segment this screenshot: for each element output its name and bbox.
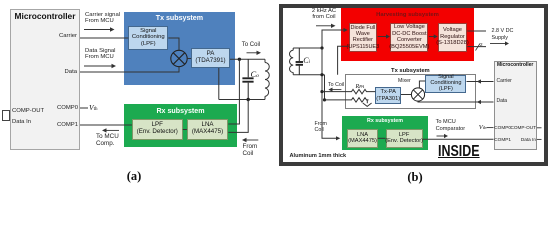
wire coil top to LNA input1 bbox=[228, 59, 239, 124]
pin COMP1 (MCU2) bbox=[494, 137, 511, 142]
LPF (Env. Detector) box (Rx b) bbox=[386, 129, 423, 148]
arrow boost to regulator bbox=[429, 34, 438, 38]
wire PA output node bbox=[230, 58, 265, 60]
svg-text:2: 2 bbox=[480, 42, 483, 47]
signal conditioning LPF box (Tx b) bbox=[425, 75, 466, 93]
wire tank bottom to LNA input2 bbox=[228, 100, 248, 133]
annotation: 2.8 V DC Supply bbox=[492, 28, 514, 40]
low voltage DC-DC boost converter box bbox=[390, 23, 428, 52]
diode full wave rectifier box bbox=[349, 23, 378, 52]
stub COMP-OUT to wall bbox=[537, 127, 542, 129]
wire mixer to PA bbox=[187, 58, 191, 60]
annotation: 2 kHz AC from Coil bbox=[302, 8, 346, 21]
LNA (MAX4475) box (Rx b) bbox=[347, 129, 377, 148]
voltage regulator box bbox=[438, 23, 468, 52]
mixer label (panel b) bbox=[398, 79, 411, 85]
junction node tank bottom (b) bbox=[320, 73, 323, 76]
pin Carrier (MCU1) bbox=[0, 33, 77, 40]
Rx subsystem box (panel b) bbox=[342, 116, 429, 150]
label INSIDE bbox=[438, 144, 480, 160]
capacitor Ci bbox=[296, 48, 303, 75]
annotation: From Coil (panel b) bbox=[315, 121, 327, 133]
wire PA ground drop bbox=[218, 68, 220, 100]
annotation: To MCU Comparator (panel b) bbox=[436, 119, 466, 132]
aluminum enclosure frame (panel b) bbox=[279, 4, 548, 167]
caption (b) bbox=[401, 170, 429, 184]
pin COMP-OUT (MCU2) bbox=[490, 125, 536, 130]
annotation: From Coil (panel a) bbox=[243, 143, 258, 157]
annotation arrow From Coil (a) bbox=[242, 138, 258, 142]
annotation arrow To Coil (b) bbox=[328, 88, 341, 92]
stub Vth to COMP0 (b) bbox=[487, 127, 494, 129]
connector box on MCU1 left edge bbox=[2, 110, 10, 121]
wire tank bottom (a) bbox=[219, 99, 265, 101]
wire rectifier return to tank bottom bbox=[338, 46, 349, 74]
LNA (MAX4475) box (Rx a) bbox=[187, 119, 228, 139]
node label Vth (panel a) bbox=[89, 104, 97, 113]
wire LNA2 to LPF2rx bbox=[378, 137, 386, 139]
junction node return feed (b) bbox=[323, 98, 326, 101]
Rx subsystem box (panel a) bbox=[124, 104, 237, 147]
Harvesting subsystem box bbox=[341, 8, 474, 61]
annotation arrow data-signal (a) bbox=[84, 64, 116, 68]
pin Data In (MCU2) bbox=[490, 137, 536, 142]
pin COMP-OUT (MCU1) bbox=[12, 108, 44, 115]
pin Carrier (MCU2) bbox=[497, 79, 512, 85]
PA (TDA7391) box bbox=[191, 48, 230, 69]
microcontroller MCU2 (panel b) bbox=[494, 61, 537, 151]
label Aluminum 1mm thick bbox=[290, 153, 347, 159]
resistor RPA wire to Tx-PA bbox=[322, 89, 375, 93]
wire mixer to signal conditioning (b) bbox=[419, 81, 425, 88]
resistor R2 wire with open arrow bbox=[325, 98, 372, 107]
wire regulator output 2 with bus slash 2 bbox=[467, 42, 486, 51]
wire tank top (b) bbox=[293, 47, 322, 49]
Tx-PA (TPA301) box bbox=[375, 87, 401, 104]
wire tank bottom (b) bbox=[293, 74, 324, 76]
caption (a) bbox=[120, 169, 148, 183]
junction node tank top (b) bbox=[320, 46, 323, 49]
inductor Li (panel b) bbox=[289, 48, 293, 75]
pin Data (MCU2) bbox=[497, 99, 508, 105]
wire Data MCU2 to mixer (b) bbox=[418, 100, 494, 104]
pin COMP1 (MCU1) bbox=[0, 122, 78, 129]
resistor label RPA bbox=[356, 84, 365, 91]
Tx subsystem box (panel a) bbox=[124, 12, 234, 85]
wire Data MCU1 to mixer bbox=[80, 67, 179, 72]
mixer M2 bbox=[411, 88, 424, 101]
wire tank top to rectifier bbox=[322, 28, 348, 48]
annotation: Data Signal From MCU bbox=[85, 48, 115, 62]
pin Data In (MCU1) bbox=[12, 119, 31, 126]
stub Data In to wall bbox=[537, 138, 542, 140]
annotation: To MCU Comp. bbox=[96, 133, 119, 147]
wire LNA1 to LPF1rx bbox=[183, 129, 187, 131]
annotation arrow 2.8V supply bbox=[490, 41, 509, 45]
wire LPF2rx to COMP1 (b) bbox=[423, 138, 494, 140]
wire LPF1rx to COMP1 bbox=[80, 124, 132, 126]
annotation: Carrier signal From MCU bbox=[85, 12, 120, 26]
Tx subsystem box (panel b) bbox=[345, 74, 477, 109]
wire Carrier MCU2 to LPF2 bbox=[467, 79, 494, 83]
pin Data (MCU1) bbox=[0, 69, 77, 76]
wire Carrier MCU1 to LPF1 bbox=[80, 37, 128, 39]
junction node PA out bbox=[238, 58, 241, 61]
wire Tx-PA to mixer (b) bbox=[401, 94, 411, 96]
annotation arrow carrier-signal (a) bbox=[84, 27, 115, 31]
pin COMP0 (MCU2) bbox=[494, 125, 511, 130]
wire coil node down to Rx (b) bbox=[322, 48, 340, 140]
annotation: To Coil (panel b) bbox=[328, 82, 344, 88]
capacitor label Co bbox=[251, 70, 259, 80]
annotation: To Coil (panel a) bbox=[242, 42, 260, 49]
inductor Lo bbox=[265, 59, 269, 99]
pin COMP0 (MCU1) bbox=[0, 105, 78, 112]
junction node Tx feed (b) bbox=[320, 90, 323, 93]
annotation arrow To Coil (a) bbox=[247, 51, 262, 55]
annotation arrow 2kHz AC (b) bbox=[316, 24, 336, 28]
mixer M1 bbox=[171, 50, 187, 66]
stub COMP0 to Vth bbox=[80, 107, 88, 109]
annotation arrow To MCU Comp bbox=[102, 128, 119, 132]
wire regulator output 1 bbox=[467, 30, 486, 32]
microcontroller MCU1 (panel a) bbox=[10, 9, 80, 150]
wire LPF1 out to mixer bbox=[168, 38, 179, 50]
signal conditioning LPF box (Tx a) bbox=[128, 26, 168, 50]
wire return branch down bbox=[324, 75, 326, 100]
annotation arrow To MCU Comparator (b) bbox=[437, 134, 449, 138]
node label Vth (panel b) bbox=[479, 124, 487, 132]
capacitor label Ci bbox=[303, 56, 310, 65]
arrow rectifier to boost bbox=[378, 34, 390, 38]
capacitor Co bbox=[242, 59, 253, 99]
LPF (Env. Detector) box (Rx a) bbox=[132, 119, 183, 139]
junction node tank bottom bbox=[247, 98, 250, 101]
